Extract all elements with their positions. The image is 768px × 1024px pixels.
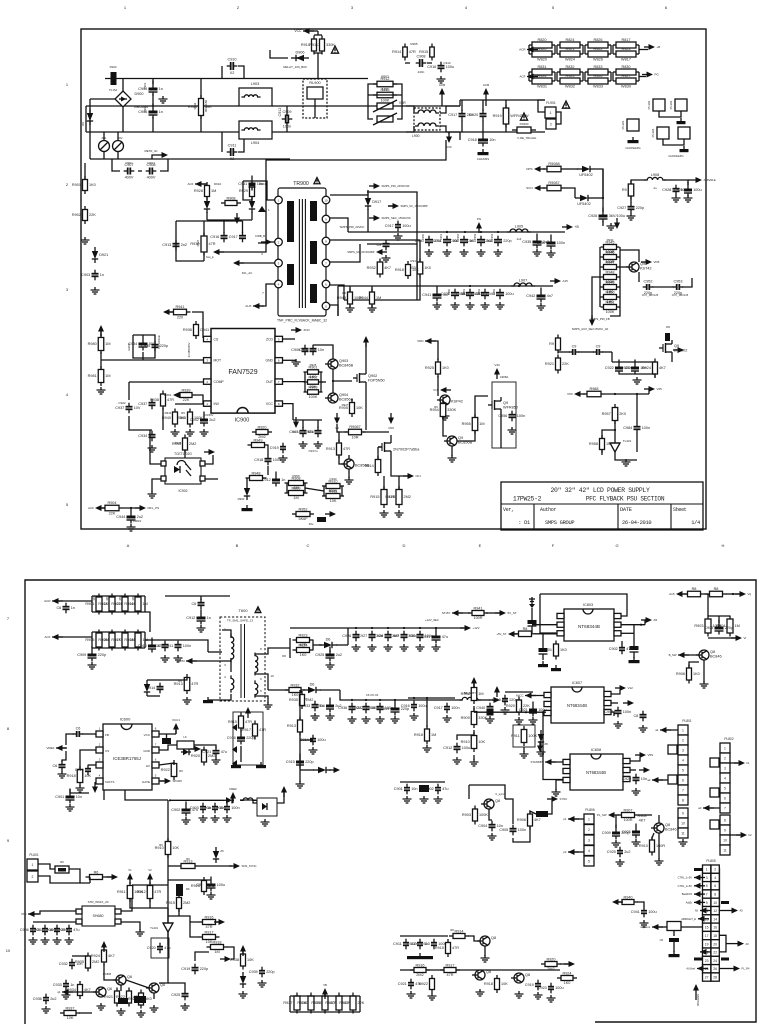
wire <box>286 483 288 493</box>
capacitor C953 <box>673 280 684 296</box>
node DPS <box>526 166 545 172</box>
ground <box>547 995 556 1002</box>
svg-text:B_SW: B_SW <box>669 653 677 657</box>
wire to MOT pin <box>101 359 203 361</box>
ground <box>65 937 74 944</box>
svg-text:8: 8 <box>724 818 726 822</box>
svg-text:100u: 100u <box>402 224 410 228</box>
svg-text:W817: W817 <box>621 58 631 62</box>
wire <box>258 200 275 243</box>
wire <box>638 45 640 54</box>
node net <box>694 883 705 889</box>
wire <box>397 106 402 119</box>
ground <box>537 749 546 756</box>
svg-text:C950: C950 <box>421 233 425 240</box>
inductor <box>241 95 260 97</box>
wire <box>121 922 140 930</box>
svg-text:C901: C901 <box>394 787 403 791</box>
ground <box>478 149 489 155</box>
resistor R981 <box>88 366 111 386</box>
ground <box>428 993 437 1000</box>
svg-text:ACR: ACR <box>44 599 51 603</box>
wire <box>531 626 533 633</box>
svg-text:COMP: COMP <box>214 380 225 384</box>
capacitor C6 <box>56 603 74 614</box>
capacitor C921 <box>202 747 227 758</box>
capacitor C938 <box>366 703 393 714</box>
wire <box>240 746 242 762</box>
svg-text:2K0: 2K0 <box>619 412 626 416</box>
svg-text:C902: C902 <box>609 647 618 651</box>
ground <box>66 804 75 811</box>
svg-text:220: 220 <box>177 315 183 319</box>
svg-text:+12V: +12V <box>473 626 480 630</box>
svg-text:C984: C984 <box>623 426 632 430</box>
wire <box>592 277 600 320</box>
diode <box>213 847 219 863</box>
svg-text:E: E <box>479 543 482 548</box>
svg-text:220p: 220p <box>200 967 208 971</box>
ground <box>256 762 266 768</box>
wire <box>505 691 533 693</box>
wire <box>652 779 668 781</box>
wire <box>368 106 373 119</box>
svg-text:1M: 1M <box>431 733 436 737</box>
svg-text:220p: 220p <box>305 760 313 764</box>
ground <box>669 951 680 957</box>
node net <box>245 707 251 718</box>
wire <box>593 197 603 199</box>
wire <box>38 876 90 883</box>
wire <box>352 244 360 262</box>
svg-text:2: 2 <box>724 756 726 760</box>
opto body <box>257 798 277 816</box>
svg-text:R935: R935 <box>289 698 298 702</box>
capacitor C933 <box>301 701 324 712</box>
wire <box>602 351 612 353</box>
wire <box>671 356 673 362</box>
svg-text:C911: C911 <box>165 644 174 648</box>
ground <box>223 815 232 822</box>
wire <box>159 780 164 782</box>
capacitor C904 <box>202 803 226 814</box>
ground <box>684 195 693 202</box>
rail A <box>105 78 368 80</box>
svg-text:220p: 220p <box>636 206 644 210</box>
ground <box>538 661 548 667</box>
node 5V_ST <box>495 610 517 616</box>
resistor R902 <box>98 594 123 615</box>
node VFB <box>641 259 659 265</box>
resistor R820 <box>529 38 555 48</box>
resistor R824 <box>557 38 583 48</box>
svg-text:1n: 1n <box>281 478 285 482</box>
svg-text:1: 1 <box>724 746 726 750</box>
svg-text:q1: q1 <box>57 990 61 994</box>
wire <box>652 286 674 288</box>
capacitor C952 <box>643 280 654 296</box>
svg-text:2: 2 <box>714 868 716 872</box>
diode D917 <box>365 194 381 210</box>
node SMPS_SEC_15VDC90 <box>369 215 411 221</box>
svg-text:10n: 10n <box>76 795 82 799</box>
capacitor C934 <box>138 431 155 442</box>
svg-text:R920: R920 <box>257 425 266 429</box>
wire <box>730 762 738 764</box>
warning symbol <box>331 46 338 53</box>
wire <box>602 221 604 226</box>
svg-text:C901: C901 <box>55 795 64 799</box>
svg-text:C921: C921 <box>398 982 407 986</box>
svg-text:9: 9 <box>706 901 708 905</box>
ground <box>700 681 709 688</box>
svg-text:Q6: Q6 <box>107 987 112 991</box>
wire <box>406 126 414 132</box>
resistor R911 <box>117 882 144 902</box>
svg-text:R903: R903 <box>111 602 120 606</box>
svg-text:AUX: AUX <box>245 304 251 308</box>
capacitor C928 <box>374 631 399 642</box>
wire <box>582 72 584 81</box>
svg-text:C925: C925 <box>315 653 324 657</box>
wire <box>610 72 612 81</box>
resistor R918 <box>414 726 436 745</box>
svg-text:1K0: 1K0 <box>145 997 152 1001</box>
wire <box>242 221 244 233</box>
wire <box>300 739 313 741</box>
wire <box>85 106 87 132</box>
svg-text:47R: 47R <box>209 242 216 246</box>
rail D <box>90 158 290 160</box>
resistor R941 <box>177 409 203 428</box>
node net <box>363 336 369 347</box>
resistor R918 <box>207 940 228 954</box>
ground <box>76 785 85 792</box>
capacitor C937 <box>441 289 469 300</box>
node +B <box>644 44 660 50</box>
svg-text:p1: p1 <box>563 817 567 821</box>
svg-text:2u4: 2u4 <box>517 237 522 241</box>
svg-text:47u: 47u <box>73 928 79 932</box>
ground <box>501 707 510 714</box>
wire <box>556 72 558 81</box>
wire <box>368 84 402 106</box>
svg-text:6: 6 <box>682 778 684 782</box>
resistor R908 <box>461 684 484 704</box>
svg-text:R946: R946 <box>605 250 614 254</box>
wire <box>33 921 76 923</box>
svg-text:2u: 2u <box>653 186 657 190</box>
svg-text:D6: D6 <box>326 638 331 642</box>
node VREF <box>46 745 67 751</box>
wire <box>72 955 88 957</box>
svg-text:1K0: 1K0 <box>442 366 449 370</box>
wire <box>639 76 646 78</box>
svg-text:V50: V50 <box>567 392 573 396</box>
svg-text:R6: R6 <box>60 860 64 864</box>
page 1 border frame <box>81 29 706 529</box>
ground <box>486 716 495 723</box>
wire <box>440 106 460 113</box>
capacitor C941 <box>422 287 449 302</box>
wire <box>568 818 584 820</box>
capacitor C941 <box>631 907 657 918</box>
ground <box>655 858 664 865</box>
svg-text:C917: C917 <box>229 235 238 239</box>
wire <box>630 651 639 653</box>
svg-text:C916: C916 <box>227 736 236 740</box>
svg-text:C931: C931 <box>238 182 247 186</box>
wire <box>726 593 740 595</box>
svg-text:R940: R940 <box>162 416 171 420</box>
wire <box>147 679 160 681</box>
connector PL301 <box>621 119 639 131</box>
ground <box>296 781 305 788</box>
resistor R946 <box>601 250 620 264</box>
wire <box>122 79 124 92</box>
svg-text:R939: R939 <box>181 388 190 392</box>
wire <box>302 420 304 428</box>
svg-text:R911: R911 <box>117 890 126 894</box>
svg-text:R932: R932 <box>290 683 299 687</box>
node SNS_SYNC <box>229 863 257 869</box>
node SMPS_SC_15VDC0BP <box>347 249 387 255</box>
svg-text:C935: C935 <box>141 344 150 348</box>
svg-text:PL806: PL806 <box>585 808 594 812</box>
svg-text:D910: D910 <box>214 182 222 186</box>
svg-text:R938: R938 <box>150 398 159 402</box>
resistor R920 <box>506 697 530 716</box>
wire <box>489 709 491 713</box>
svg-text:F-RE_TRH1HL: F-RE_TRH1HL <box>518 136 537 140</box>
diode <box>181 749 191 755</box>
capacitor C936 <box>338 703 363 714</box>
svg-text:R920: R920 <box>537 47 546 51</box>
capacitor C908 <box>146 163 157 180</box>
svg-text:1M: 1M <box>376 296 381 300</box>
svg-text:C9013: C9013 <box>147 161 155 165</box>
wire <box>82 733 96 735</box>
svg-text:TL431: TL431 <box>623 439 632 443</box>
svg-text:23: 23 <box>705 959 709 963</box>
svg-text:Q8: Q8 <box>491 936 496 940</box>
wire <box>153 993 155 999</box>
resistor R833 <box>585 65 611 75</box>
svg-text:PRIM: PRIM <box>177 659 185 663</box>
wire <box>359 996 361 1012</box>
wire <box>676 180 688 185</box>
svg-text:p2: p2 <box>563 850 567 854</box>
svg-text:W831: W831 <box>537 85 547 89</box>
resistor R932 <box>285 683 305 697</box>
svg-text:C929: C929 <box>390 634 399 638</box>
svg-text:+12V_SEC: +12V_SEC <box>425 618 439 622</box>
svg-text:C910: C910 <box>138 644 147 648</box>
ground <box>639 725 648 732</box>
svg-text:freq_jn: freq_jn <box>206 255 214 259</box>
capacitor C926 <box>622 824 640 839</box>
wire <box>694 885 703 887</box>
wire <box>317 31 319 35</box>
ground <box>161 655 170 662</box>
svg-text:R9087: R9087 <box>349 425 360 429</box>
wire <box>416 244 418 300</box>
svg-text:NT68344B: NT68344B <box>567 703 587 708</box>
ground <box>481 302 490 309</box>
bridge rectifier D900 GBU606 <box>115 91 148 109</box>
svg-text:100u: 100u <box>446 65 454 69</box>
svg-text:10: 10 <box>713 901 717 905</box>
capacitor C9 <box>569 345 580 356</box>
resistor R917 <box>440 963 460 977</box>
wire <box>330 194 368 196</box>
svg-text:220p: 220p <box>98 653 106 657</box>
capacitor C8 <box>633 711 646 722</box>
svg-text:R9088: R9088 <box>548 162 559 166</box>
svg-text:1K0: 1K0 <box>300 653 307 657</box>
wire <box>159 733 176 735</box>
wire <box>348 455 350 459</box>
svg-text:C919: C919 <box>525 983 534 987</box>
capacitor C911 <box>227 144 238 162</box>
svg-text:17PW25-2: 17PW25-2 <box>513 496 542 503</box>
svg-text:6: 6 <box>724 796 726 800</box>
svg-text:R924: R924 <box>91 954 100 958</box>
wire <box>599 247 601 307</box>
svg-text:22K: 22K <box>109 511 116 515</box>
wire <box>238 66 244 79</box>
ground <box>231 762 241 768</box>
resistor R922 <box>419 975 435 993</box>
svg-text:R955: R955 <box>462 422 471 426</box>
wire <box>92 631 145 633</box>
wire <box>323 486 325 496</box>
ground <box>552 789 561 796</box>
node PL_R4 <box>729 966 750 972</box>
svg-text:C931: C931 <box>421 635 430 639</box>
svg-text:R902: R902 <box>98 602 107 606</box>
svg-text:R932: R932 <box>367 266 376 270</box>
svg-text:SPURK: SPURK <box>173 779 183 783</box>
node Vq <box>735 591 752 597</box>
transistor Q8 <box>696 650 722 660</box>
wire <box>636 394 638 423</box>
resistor R920 <box>529 47 555 62</box>
svg-text:R923: R923 <box>621 47 630 51</box>
svg-text:F900: F900 <box>110 65 117 69</box>
ground <box>29 937 38 944</box>
svg-text:R922: R922 <box>161 768 170 772</box>
wire <box>337 432 339 442</box>
wire <box>638 272 640 282</box>
wire loop <box>367 192 417 244</box>
svg-text:1K0: 1K0 <box>560 648 567 652</box>
svg-text:8: 8 <box>714 892 716 896</box>
svg-text:METR_4C: METR_4C <box>144 149 157 153</box>
node V50 <box>567 391 585 397</box>
svg-text:Q8: Q8 <box>486 970 491 974</box>
resistor R904 <box>124 594 147 615</box>
node SCN <box>526 185 545 191</box>
resistor R923 <box>613 47 639 62</box>
wire <box>160 677 187 680</box>
svg-text:10K: 10K <box>501 982 508 986</box>
wire <box>478 699 490 701</box>
diode <box>240 972 246 988</box>
node net <box>214 919 225 925</box>
svg-text:FS900: FS900 <box>520 122 529 126</box>
diode <box>224 797 234 803</box>
svg-text:C904: C904 <box>478 824 487 828</box>
svg-text:TCET1102G: TCET1102G <box>174 452 192 456</box>
svg-text:R950: R950 <box>605 290 614 294</box>
svg-text:100K: 100K <box>381 98 390 102</box>
node V2 <box>147 868 153 884</box>
wire <box>688 179 691 181</box>
svg-text:ICE3BR1765J: ICE3BR1765J <box>113 756 141 761</box>
svg-text:5: 5 <box>682 768 684 772</box>
svg-text:R910: R910 <box>639 844 648 848</box>
connector PL304 <box>651 127 669 139</box>
wire <box>460 131 545 133</box>
svg-text:VREF: VREF <box>229 787 237 791</box>
wire <box>612 45 614 54</box>
ground <box>453 757 462 764</box>
wire <box>56 747 66 749</box>
svg-text:1/4: 1/4 <box>691 520 700 526</box>
wire <box>266 284 275 295</box>
svg-text:4n7: 4n7 <box>547 294 553 298</box>
svg-text:47R: 47R <box>245 720 252 724</box>
resistor R909 <box>461 708 488 728</box>
ground <box>261 819 270 826</box>
svg-text:C926: C926 <box>342 634 351 638</box>
svg-text:R914: R914 <box>392 50 401 54</box>
wire <box>473 706 475 710</box>
wire <box>159 745 177 750</box>
svg-text:100K: 100K <box>528 734 537 738</box>
resistor R917 <box>242 721 266 740</box>
svg-text:6: 6 <box>714 884 716 888</box>
wire <box>505 799 513 824</box>
node A5 <box>727 908 743 914</box>
node AVCC <box>516 693 536 699</box>
wire <box>406 106 414 113</box>
svg-text:CTRL_1+5V: CTRL_1+5V <box>678 876 693 880</box>
ground <box>476 989 485 996</box>
svg-text:12: 12 <box>713 909 717 913</box>
svg-text:100n: 100n <box>623 710 631 714</box>
svg-text:10K: 10K <box>412 268 419 272</box>
svg-text:1M: 1M <box>214 950 219 954</box>
svg-text:47R: 47R <box>447 973 454 977</box>
capacitor C918 <box>468 132 496 147</box>
capacitor C910 <box>227 58 238 76</box>
svg-text:C903: C903 <box>81 273 90 277</box>
svg-text:C941: C941 <box>200 328 209 332</box>
svg-text:C933: C933 <box>329 477 337 481</box>
wire <box>473 730 475 735</box>
node net <box>234 213 240 224</box>
MOSFET Q9 <box>659 340 687 356</box>
ground <box>529 717 538 724</box>
svg-text:R908: R908 <box>226 196 235 200</box>
ground <box>633 377 642 384</box>
net flag <box>529 597 535 608</box>
wire <box>336 644 348 646</box>
ground <box>311 713 320 720</box>
resistor R905 <box>339 399 363 417</box>
